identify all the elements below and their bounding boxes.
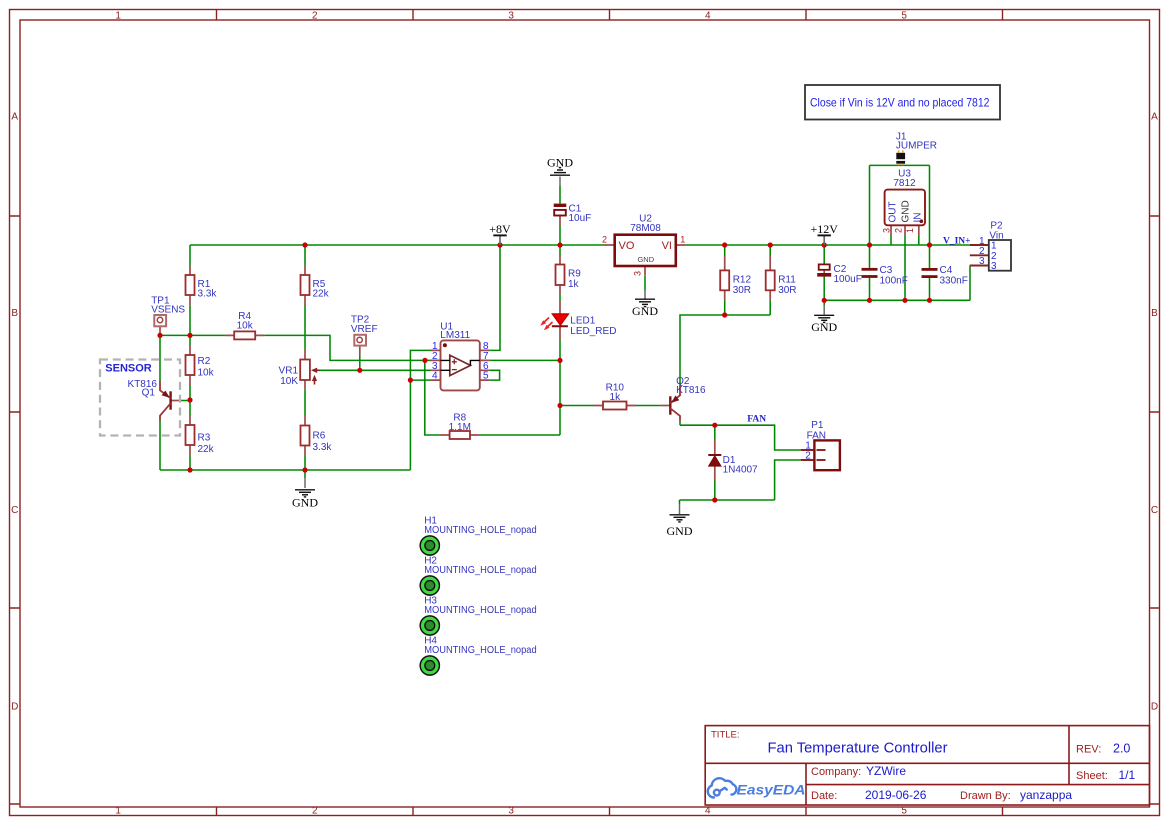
wire D1 bottom lead <box>714 481 716 501</box>
Q1 base stub <box>171 400 181 402</box>
svg-text:2: 2 <box>805 451 811 462</box>
wire R2 bottom to Q1 base node to R3 top <box>189 385 191 415</box>
resistor R3 body <box>186 425 195 445</box>
capacitor C2 plates <box>819 264 830 269</box>
R3 leads <box>189 415 191 455</box>
wire FAN row to P1 pin1 <box>680 425 801 450</box>
sensor dashed box <box>100 360 180 436</box>
connector P1 inner pin bars <box>817 450 826 460</box>
diode D1 symbol <box>708 454 721 456</box>
svg-text:2: 2 <box>312 806 318 817</box>
svg-text:1/1: 1/1 <box>1119 768 1136 782</box>
svg-text:Date:: Date: <box>811 790 837 802</box>
column ticks top <box>217 10 1003 20</box>
junction U1 pin4 GND <box>408 378 413 383</box>
test point TP2 <box>354 335 366 346</box>
svg-text:1k: 1k <box>610 392 622 403</box>
wire Q1 emitter up to VSENS row <box>159 335 161 381</box>
wire jumper right down through C4 <box>929 165 931 300</box>
junction LED node pin7 <box>557 358 562 363</box>
regulator U2 box <box>615 235 676 266</box>
junction C4/IN column <box>927 242 932 247</box>
svg-text:GND: GND <box>811 320 837 334</box>
wire R8 right to output node <box>480 434 560 436</box>
U3 pin stubs <box>891 225 919 236</box>
svg-text:OUT: OUT <box>888 201 899 222</box>
wire VR1 wiper row to U1 pin3 <box>320 369 431 371</box>
svg-text:Close if Vin is 12V and no pla: Close if Vin is 12V and no placed 7812 <box>810 96 990 110</box>
wire left GND rail <box>160 469 410 471</box>
junction TP1 <box>157 333 162 338</box>
wire fan GND stub <box>679 500 681 504</box>
svg-text:LED_RED: LED_RED <box>570 326 616 337</box>
wire +8V rail <box>190 244 605 246</box>
power flag +12V <box>823 235 825 245</box>
svg-text:MOUNTING_HOLE_nopad: MOUNTING_HOLE_nopad <box>424 645 537 656</box>
wire VR1 bottom to R6 top <box>304 390 306 416</box>
resistor R12 body <box>720 270 729 290</box>
ground symbol U2 pin3 <box>635 291 655 307</box>
svg-text:3: 3 <box>979 256 985 267</box>
title block borders <box>705 726 1149 805</box>
svg-text:R3: R3 <box>198 433 211 444</box>
wire R11 bottom <box>769 300 771 315</box>
junction C4 bottom <box>927 298 932 303</box>
wire U1 pin6 to pin5 <box>490 370 500 380</box>
svg-text:YZWire: YZWire <box>866 764 906 778</box>
svg-text:Company:: Company: <box>811 766 861 778</box>
svg-text:30R: 30R <box>778 285 796 296</box>
wire D1 top lead <box>714 425 716 440</box>
wire C2 bottom to GND <box>823 277 825 306</box>
svg-text:3: 3 <box>882 228 892 233</box>
junction R1/R2/R4 VSENS <box>187 333 192 338</box>
svg-text:2019-06-26: 2019-06-26 <box>865 788 927 802</box>
svg-text:FAN: FAN <box>747 414 766 424</box>
wire fan GND rail <box>680 499 775 501</box>
resistor R9 body <box>556 265 565 286</box>
svg-text:R6: R6 <box>313 431 326 442</box>
VR1 leads <box>304 350 306 390</box>
svg-text:VREF: VREF <box>351 324 378 335</box>
resistor R1 body <box>186 275 195 295</box>
svg-text:2: 2 <box>893 228 903 233</box>
wire rail to R9 <box>559 245 561 256</box>
wire feedback U1 pin2 down to R8 <box>425 360 440 435</box>
svg-text:C: C <box>11 505 18 516</box>
junction R11 top <box>768 242 773 247</box>
svg-text:3: 3 <box>508 806 514 817</box>
junction Q1 base <box>187 397 192 402</box>
svg-text:R2: R2 <box>198 356 211 367</box>
svg-text:1.1M: 1.1M <box>449 422 471 433</box>
svg-text:3.3k: 3.3k <box>198 289 218 300</box>
svg-text:R9: R9 <box>568 269 581 280</box>
R9 leads <box>559 256 561 295</box>
svg-text:GND: GND <box>637 255 654 264</box>
wire R5 bottom to VR1 top <box>304 305 306 350</box>
svg-text:GND: GND <box>667 524 693 538</box>
R11 leads <box>769 256 771 300</box>
svg-text:10k: 10k <box>198 368 215 379</box>
wire rail to C2 <box>823 245 825 264</box>
svg-text:B: B <box>1151 308 1158 319</box>
junction +12V/C2 <box>822 242 827 247</box>
R8 leads <box>440 434 480 436</box>
wire R10 to Q2 base <box>637 405 661 407</box>
R4 leads <box>226 334 265 336</box>
junction TP2/wiper <box>357 368 362 373</box>
wire R5 top lead <box>304 245 306 266</box>
wire rail to R11 <box>769 245 771 256</box>
wire +12V rail <box>686 244 970 246</box>
svg-text:7812: 7812 <box>893 178 916 189</box>
jumper J1 symbol <box>896 153 905 159</box>
svg-text:EasyEDA: EasyEDA <box>737 781 806 797</box>
R12 leads <box>724 256 726 300</box>
wire VSENS row TP1 to R4 <box>160 334 226 336</box>
svg-text:Drawn By:: Drawn By: <box>960 790 1011 802</box>
svg-text:10K: 10K <box>280 376 298 387</box>
wire P2 pin3 drop <box>969 266 971 301</box>
junction R6 bottom GND <box>302 467 307 472</box>
svg-text:yanzappa: yanzappa <box>1020 788 1072 802</box>
junction D1 FAN <box>712 423 717 428</box>
wire Q1 base to divider node <box>181 400 190 402</box>
capacitor C4 plates <box>922 268 938 271</box>
svg-text:MOUNTING_HOLE_nopad: MOUNTING_HOLE_nopad <box>424 525 537 536</box>
svg-text:MOUNTING_HOLE_nopad: MOUNTING_HOLE_nopad <box>424 605 537 616</box>
ground symbol C2 <box>814 305 834 322</box>
transistor Q2 symbol <box>669 396 671 414</box>
svg-text:5: 5 <box>901 806 907 817</box>
regulator U3 pin1 marker <box>920 219 924 223</box>
svg-text:1: 1 <box>115 11 121 22</box>
svg-text:4: 4 <box>432 371 438 382</box>
op-amp U1 box <box>441 340 480 390</box>
svg-text:100nF: 100nF <box>880 276 908 287</box>
ground symbol top (C1) <box>550 168 570 186</box>
svg-text:GND: GND <box>901 200 912 222</box>
svg-text:3: 3 <box>991 261 997 272</box>
wire right GND rail <box>824 299 970 301</box>
junction U1 pin2 feedback <box>422 358 427 363</box>
wire rail to R12 <box>724 245 726 256</box>
wire U1 pin4 to GND vertical <box>410 379 430 381</box>
wire U3 IN pin to rail <box>918 236 920 245</box>
potentiometer VR1 adjust arrow <box>314 378 316 385</box>
svg-text:KT816: KT816 <box>676 385 706 396</box>
svg-text:Fan Temperature Controller: Fan Temperature Controller <box>768 740 948 757</box>
svg-text:GND: GND <box>292 496 318 510</box>
svg-text:+12V: +12V <box>810 222 838 236</box>
U1 pin stubs <box>431 350 490 380</box>
EasyEDA logo cloud <box>708 778 737 797</box>
row ticks right <box>1150 216 1160 804</box>
note box <box>805 85 1000 120</box>
svg-text:1k: 1k <box>568 279 580 290</box>
resistor R10 body <box>603 402 627 410</box>
op-amp U1 input minus <box>452 369 457 371</box>
R5 leads <box>304 266 306 306</box>
svg-text:D: D <box>1151 702 1158 713</box>
svg-text:1: 1 <box>680 235 685 245</box>
mounting hole H4 <box>420 656 439 675</box>
LED1 leads <box>559 301 561 340</box>
wire R1 bottom to VSENS node <box>189 306 191 346</box>
svg-text:2: 2 <box>602 235 607 245</box>
svg-text:2: 2 <box>312 11 318 22</box>
resistor R11 body <box>766 270 775 290</box>
resistor R2 body <box>186 355 195 375</box>
wire TP2 lead <box>359 356 361 370</box>
potentiometer VR1 body <box>300 360 310 381</box>
junction D1 GND <box>712 497 717 502</box>
wire +8V drop to U1 pin8 <box>490 245 500 350</box>
svg-text:5: 5 <box>901 11 907 22</box>
mounting hole H3 <box>420 616 439 635</box>
wire GND stub left rail <box>304 470 306 478</box>
wire C1 bottom to rail <box>559 225 561 245</box>
ground symbol fan rail <box>670 504 690 522</box>
P2 pin stubs <box>970 245 989 266</box>
svg-text:A: A <box>1151 112 1158 123</box>
junction R5 top <box>302 242 307 247</box>
svg-text:LM311: LM311 <box>440 330 470 341</box>
LED1 symbol <box>552 314 568 325</box>
potentiometer VR1 wiper arrow <box>315 369 320 371</box>
wire jumper J1 bypass <box>870 164 930 166</box>
wire R4 to U1 pin2 <box>264 335 430 360</box>
wire Q1 collector down to GND rail <box>159 420 161 470</box>
svg-text:Sheet:: Sheet: <box>1076 770 1108 782</box>
svg-text:GND: GND <box>632 304 658 318</box>
svg-text:1: 1 <box>905 228 915 233</box>
wire R6 bottom to GND rail <box>304 456 306 471</box>
resistor R4 body <box>234 331 255 339</box>
connector P2 box <box>989 240 1011 271</box>
svg-text:3: 3 <box>633 271 643 276</box>
connector P1 box <box>814 440 840 470</box>
wire R12/R11 join to Q2 emitter <box>680 315 770 386</box>
resistor R5 body <box>301 275 310 295</box>
wire C1 top to GND <box>559 186 561 204</box>
junction output node R10 <box>557 403 562 408</box>
svg-text:V_IN+: V_IN+ <box>943 237 971 247</box>
C2 lead <box>823 270 825 273</box>
op-amp U1 internal output line <box>470 360 479 365</box>
R10 leads <box>593 405 637 407</box>
op-amp U1 triangle <box>450 355 471 375</box>
junction C3 bottom <box>867 298 872 303</box>
wire P1 pin2 to GND rail <box>775 460 801 500</box>
resistor R6 body <box>301 426 310 446</box>
wire U3 GND pin to bottom rail <box>904 236 906 300</box>
svg-text:VO: VO <box>619 240 635 252</box>
svg-text:2.0: 2.0 <box>1113 742 1130 756</box>
wire R12 bottom <box>724 300 726 315</box>
svg-text:LED1: LED1 <box>570 316 595 327</box>
wire Q2 collector to FAN row <box>679 421 681 426</box>
svg-text:5: 5 <box>483 371 489 382</box>
svg-text:B: B <box>11 308 18 319</box>
svg-text:22k: 22k <box>198 444 215 455</box>
svg-text:TITLE:: TITLE: <box>711 730 740 741</box>
svg-text:SENSOR: SENSOR <box>105 362 152 374</box>
svg-text:3.3k: 3.3k <box>313 442 333 453</box>
svg-text:10k: 10k <box>237 321 254 332</box>
svg-text:C: C <box>1151 505 1158 516</box>
junction C2 GND <box>822 298 827 303</box>
junction +8V flag <box>497 242 502 247</box>
test point TP1 <box>154 315 166 326</box>
svg-text:4: 4 <box>705 806 711 817</box>
svg-text:78M08: 78M08 <box>630 223 661 234</box>
U2 pin stubs <box>605 245 686 275</box>
ground symbol left rail <box>295 478 315 497</box>
wire LED1 to node, down to R8 row <box>559 340 561 435</box>
svg-text:4: 4 <box>705 11 711 22</box>
C1 lead <box>559 215 561 225</box>
D1 leads <box>714 440 716 481</box>
R1 leads <box>189 266 191 306</box>
regulator U3 box <box>885 190 925 226</box>
svg-text:C4: C4 <box>940 265 953 276</box>
junction C3 column <box>867 242 872 247</box>
svg-text:10uF: 10uF <box>569 213 592 224</box>
capacitor C3 plates <box>862 268 878 271</box>
TP2 lead <box>359 346 361 356</box>
svg-text:+8V: +8V <box>489 222 511 236</box>
svg-text:IN: IN <box>913 213 924 223</box>
junction C1/R9 <box>557 242 562 247</box>
wire U1 pin1 to GND rail <box>410 350 430 470</box>
op-amp U1 input plus <box>452 359 457 364</box>
wire R1 top lead <box>189 245 191 266</box>
wire U2 pin3 to GND <box>644 275 646 290</box>
svg-text:REV:: REV: <box>1076 744 1101 756</box>
row ticks left <box>10 216 20 804</box>
svg-text:3: 3 <box>508 11 514 22</box>
wire R3 bottom to GND rail <box>189 455 191 470</box>
svg-text:22k: 22k <box>313 289 330 300</box>
R6 leads <box>304 416 306 456</box>
resistor R8 body <box>450 431 470 439</box>
wire U3 OUT pin to rail <box>890 236 892 245</box>
op-amp U1 internal input lines <box>441 360 451 370</box>
column ticks bottom <box>217 807 1003 816</box>
capacitor C1 plates <box>554 204 567 207</box>
svg-text:A: A <box>11 112 18 123</box>
TP1 lead <box>159 326 161 335</box>
svg-text:VR1: VR1 <box>279 366 299 377</box>
svg-text:MOUNTING_HOLE_nopad: MOUNTING_HOLE_nopad <box>424 565 537 576</box>
wire U1 pin7 to LED node <box>490 359 560 361</box>
svg-text:VI: VI <box>662 240 672 252</box>
wire R9 to LED1 <box>559 295 561 301</box>
svg-text:R11: R11 <box>778 275 796 286</box>
transistor Q1 symbol <box>169 391 171 409</box>
svg-text:P1: P1 <box>811 420 824 431</box>
power flag +8V <box>499 235 501 245</box>
junction R12 top <box>722 242 727 247</box>
mounting hole H2 <box>420 576 439 595</box>
svg-text:1N4007: 1N4007 <box>723 465 758 476</box>
svg-text:Q1: Q1 <box>142 388 156 399</box>
Q2 base stub <box>660 405 670 407</box>
svg-text:VSENS: VSENS <box>151 305 185 316</box>
junction R3 bottom <box>187 467 192 472</box>
mounting hole H1 <box>420 536 439 555</box>
wire output node to R10 <box>560 405 593 407</box>
op-amp U1 pin1 marker <box>443 343 447 347</box>
svg-text:330nF: 330nF <box>940 276 968 287</box>
svg-text:R12: R12 <box>733 275 752 286</box>
svg-text:D: D <box>11 702 18 713</box>
junction U3 GND pin bottom <box>902 298 907 303</box>
svg-text:30R: 30R <box>733 285 751 296</box>
svg-text:GND: GND <box>547 156 573 170</box>
svg-text:100uF: 100uF <box>834 274 862 285</box>
R2 leads <box>189 346 191 386</box>
wire jumper left down through C3 <box>869 165 871 300</box>
junction R12 bottom <box>722 312 727 317</box>
svg-text:1: 1 <box>115 806 121 817</box>
svg-text:C3: C3 <box>880 265 893 276</box>
P1 pin stubs <box>801 450 815 460</box>
svg-text:JUMPER: JUMPER <box>896 141 937 152</box>
